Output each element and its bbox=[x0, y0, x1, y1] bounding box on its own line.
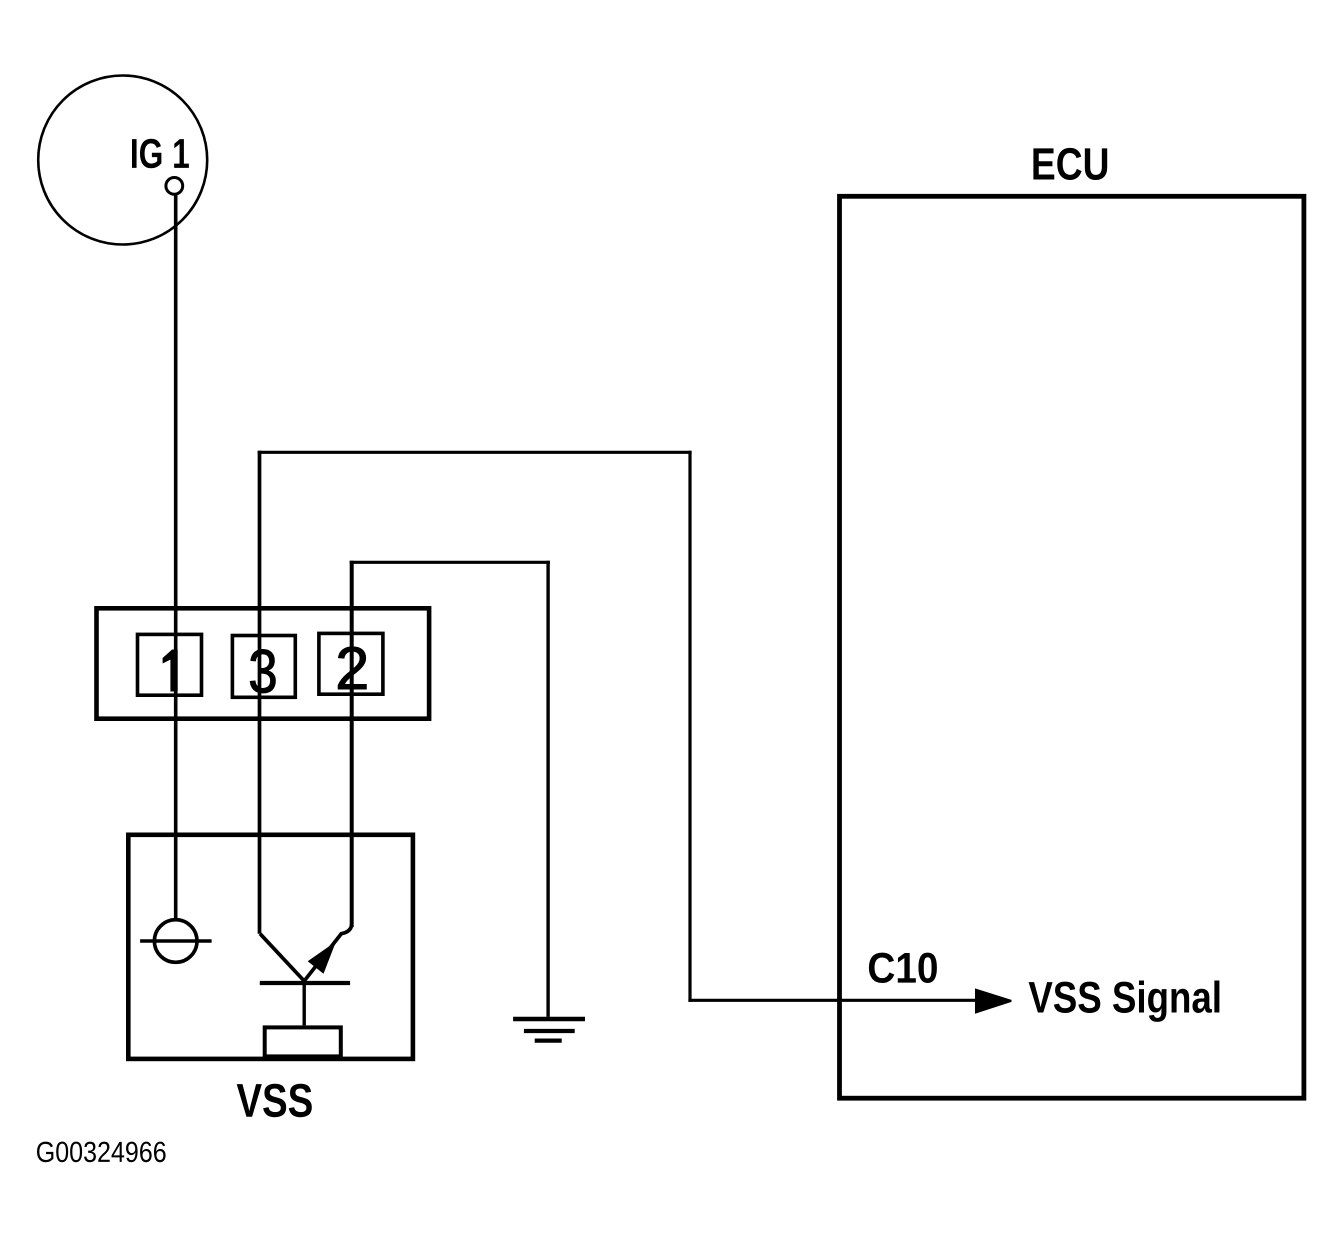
wire segment: vertical drop to ground bbox=[546, 561, 549, 1017]
IG1 terminal circle bbox=[166, 178, 183, 195]
ground bar top bbox=[513, 1017, 585, 1022]
transistor collector lead bbox=[260, 934, 304, 981]
wire segment: pin 3 horizontal run toward ECU bbox=[258, 451, 692, 454]
fuse IG1 circle bbox=[38, 76, 207, 245]
ground symbol bbox=[513, 1019, 585, 1041]
VSS sensor circle bbox=[154, 920, 197, 963]
wire segment: pin 3 vertical riser bbox=[258, 451, 262, 934]
C10 pin label bbox=[869, 953, 937, 983]
transistor emitter arrowhead bbox=[308, 942, 336, 974]
VSS Signal label bbox=[1029, 980, 1220, 1021]
IG 1 label bbox=[132, 139, 189, 169]
wire segment: horizontal into ECU pin C10 bbox=[688, 999, 1000, 1002]
pin 2 box bbox=[319, 633, 383, 694]
VSS sensor circle crossbar bbox=[140, 939, 212, 943]
wire segment: IG1 terminal down through connector pin 1 to sensor bbox=[174, 196, 178, 920]
C10 output arrowhead bbox=[975, 988, 1012, 1013]
VSS label bbox=[237, 1084, 312, 1118]
transistor base lead bbox=[303, 983, 306, 1025]
pin 1 box bbox=[138, 634, 202, 695]
ECU label bbox=[1033, 148, 1107, 180]
ECU box bbox=[840, 196, 1304, 1098]
pin 1 number bbox=[163, 650, 177, 691]
wire segment: vertical drop to C10 row bbox=[688, 451, 691, 1002]
wire segment: pin 2 horizontal run bbox=[350, 561, 550, 564]
transistor base bar bbox=[260, 981, 350, 985]
ground bar middle bbox=[524, 1029, 575, 1033]
ground bar bottom bbox=[535, 1038, 562, 1042]
pin 3 number bbox=[250, 650, 275, 693]
base element rectangle bbox=[265, 1027, 341, 1056]
VSS box bbox=[128, 835, 413, 1059]
pin 3 box bbox=[232, 636, 295, 698]
wire segment: pin 2 vertical riser bbox=[350, 561, 354, 927]
pin 2 number bbox=[338, 647, 366, 689]
figure number G00324966 bbox=[37, 1142, 166, 1163]
connector block bbox=[97, 608, 430, 718]
transistor emitter lead bbox=[304, 924, 352, 981]
